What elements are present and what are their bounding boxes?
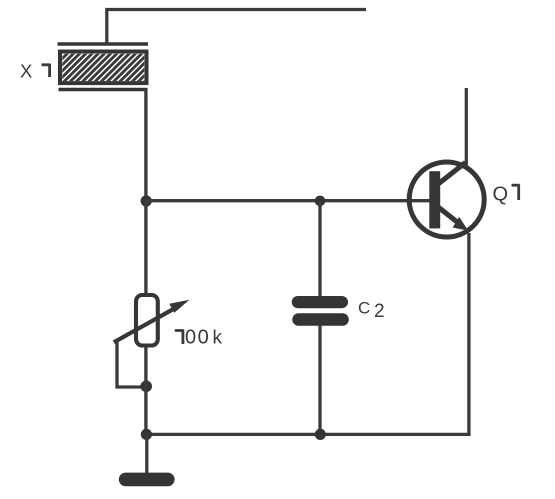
wire: down to ground symbol bbox=[145, 434, 148, 474]
svg-text:Q: Q bbox=[493, 184, 509, 206]
capacitor C2 (bottom plate) bbox=[292, 313, 349, 326]
wire: wiper return loop (arrow tail down and right to lower terminal) bbox=[117, 341, 147, 387]
wire: Q1 collector lead going up bbox=[465, 88, 468, 167]
transistor Q1 (NPN) circle bbox=[409, 162, 484, 237]
potentiometer arrow (adjustment arrow through body) bbox=[114, 300, 190, 343]
wire: node A down to potentiometer top bbox=[144, 201, 147, 294]
label X1 bbox=[20, 61, 50, 82]
crystal X1 bbox=[28, 44, 184, 90]
wire: potentiometer bottom to bottom rail bbox=[144, 346, 147, 437]
potentiometer 100k (variable resistor body) bbox=[136, 295, 158, 346]
transistor Q1 base bar bbox=[429, 171, 440, 228]
svg-text:2: 2 bbox=[374, 301, 385, 322]
wire: C2 bottom lead bbox=[318, 325, 321, 436]
svg-text:k: k bbox=[213, 328, 223, 349]
wire: Q1 emitter lead going down to bottom rail corner bbox=[145, 233, 469, 434]
svg-text:C: C bbox=[358, 299, 370, 318]
junction: wiper joins lower pot terminal bbox=[140, 381, 152, 393]
ground bbox=[119, 473, 175, 487]
label C2 bbox=[358, 299, 385, 323]
svg-text:00: 00 bbox=[185, 327, 210, 349]
junction: bottom rail at ground branch bbox=[141, 429, 152, 440]
svg-text:X: X bbox=[20, 61, 33, 82]
junction: C2 bottom on bottom rail bbox=[315, 429, 326, 440]
label Q1 bbox=[493, 184, 520, 206]
transistor Q1 collector stroke bbox=[438, 163, 466, 185]
transistor Q1 emitter stroke with arrow bbox=[438, 207, 469, 231]
capacitor C2 (top plate) bbox=[292, 296, 348, 308]
node A (junction of crystal, base wire, potentiometer) bbox=[141, 195, 152, 206]
wire: node A to Q1 base bbox=[145, 199, 430, 202]
wire: top rail from crystal top electrode up and to the right bbox=[107, 10, 366, 45]
label 100k bbox=[175, 327, 223, 349]
junction: C2 top node bbox=[315, 196, 326, 207]
wire: crystal bottom electrode down to node A bbox=[144, 88, 147, 203]
wire: C2 top lead bbox=[318, 201, 321, 297]
